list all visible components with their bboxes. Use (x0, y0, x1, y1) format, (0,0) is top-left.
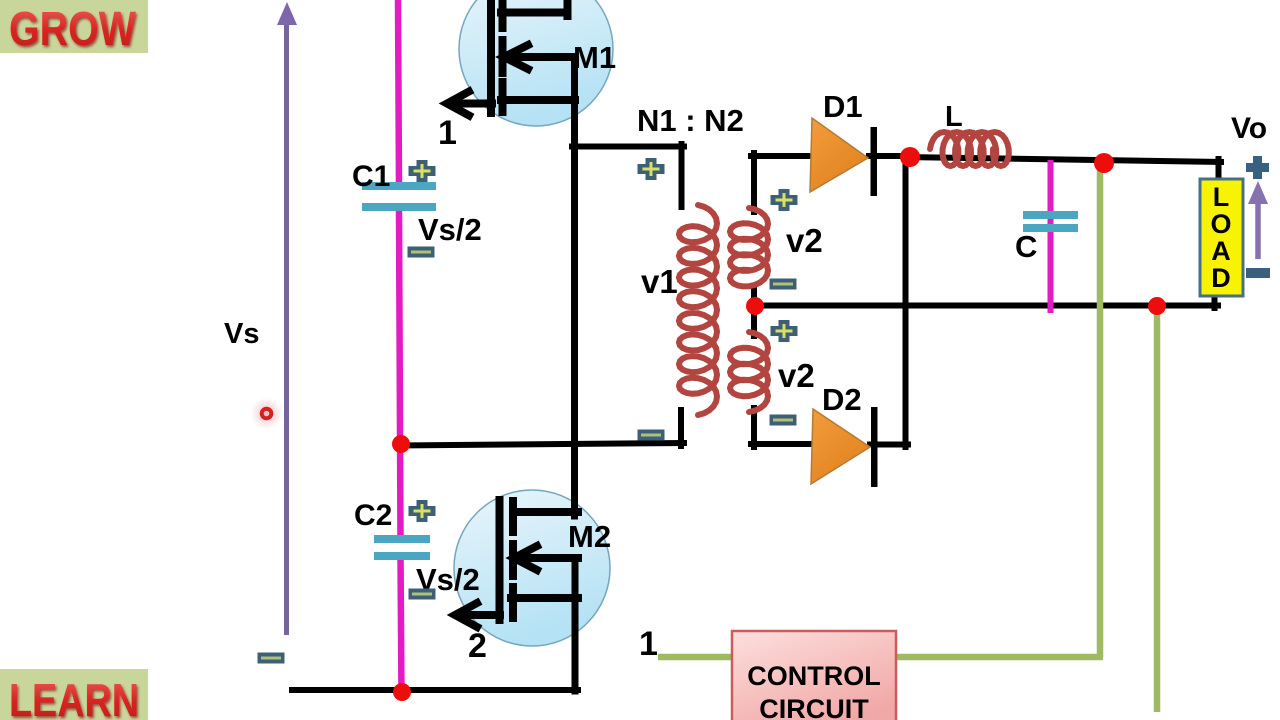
junction dot (bottom rail) (393, 683, 411, 701)
svg-text:v2: v2 (778, 357, 815, 394)
capacitor C1 plates (362, 182, 436, 190)
secondary upper minus polarity (770, 279, 797, 290)
svg-text:Vo: Vo (1231, 112, 1267, 145)
junction dot (center tap) (746, 297, 764, 315)
M2 body arrow (514, 546, 537, 570)
M2 channel segment middle (509, 544, 517, 576)
wire: secondary top lead (751, 153, 757, 212)
secondary upper plus polarity (771, 189, 798, 211)
wire: secondary top to D1 anode (751, 153, 815, 159)
transformer secondary upper winding (730, 208, 768, 286)
M1 gate lead (450, 100, 492, 108)
capacitor C lead (magenta) (1048, 160, 1054, 313)
M1 drain lead up (564, 0, 572, 16)
svg-text:C1: C1 (352, 160, 390, 193)
svg-text:D2: D2 (822, 382, 862, 417)
M2 body line (516, 554, 578, 562)
capacitor C plates (1023, 211, 1078, 219)
M2 channel segment top (509, 501, 517, 532)
Vo plus polarity (1246, 156, 1269, 179)
capacitor C2 plates (374, 535, 430, 543)
laser pointer dot (251, 398, 283, 430)
svg-text:D1: D1 (823, 89, 863, 124)
M1 body line (506, 53, 575, 61)
green feedback line vertical (output bottom) (1154, 306, 1161, 712)
M1 gate arrow (drive 1) (447, 92, 469, 116)
wire: DC bus (magenta) lower segment (401, 555, 402, 697)
diode D1 (810, 118, 868, 192)
source Vs arrow (284, 20, 289, 635)
svg-text:GROW: GROW (9, 3, 137, 56)
wire: secondary bottom lead (751, 408, 757, 447)
wire: center tap return line (752, 303, 1218, 309)
svg-text:Vs/2: Vs/2 (418, 212, 482, 247)
M2 source stub (511, 594, 578, 602)
M1 source stub (501, 96, 575, 104)
primary minus polarity (638, 430, 665, 441)
C2 minus polarity (409, 589, 436, 600)
wire: DC bus (magenta) middle segment (399, 209, 401, 539)
junction dot (top feedback) (1094, 153, 1114, 173)
wire: rectifier output vertical (903, 156, 909, 447)
svg-text:M1: M1 (573, 40, 616, 75)
green gate-drive line horizontal (658, 654, 1103, 661)
wire: primary bottom lead (678, 410, 684, 446)
M2 drain stub (513, 508, 578, 516)
M2 gate bar (496, 500, 504, 620)
Vs minus terminal (258, 653, 285, 664)
svg-text:L: L (945, 101, 963, 133)
svg-text:C: C (1015, 229, 1037, 264)
diode D2 (811, 409, 870, 484)
C1 minus polarity (408, 247, 435, 258)
junction dot (D1 output) (900, 147, 920, 167)
M1 channel segment bottom (499, 82, 507, 112)
transformer primary winding (679, 205, 717, 415)
svg-text:LEARN: LEARN (9, 674, 139, 720)
svg-text:L: L (1213, 182, 1230, 212)
secondary lower plus polarity (771, 320, 798, 342)
control circuit box (732, 631, 896, 720)
LOAD box (1200, 179, 1243, 296)
M1 body arrow (504, 45, 528, 69)
wire: load top lead (1216, 159, 1222, 182)
svg-text:2: 2 (468, 627, 487, 665)
M1 channel segment top (499, 0, 507, 28)
wire: center tap stub (751, 290, 757, 336)
wire: primary top lead (679, 144, 685, 207)
svg-text:1: 1 (438, 114, 457, 152)
svg-text:N1 : N2: N1 : N2 (637, 103, 744, 138)
wire: D2 cathode to junction (870, 442, 908, 448)
wire: secondary bottom to D2 anode (751, 441, 815, 447)
wire: midpoint to primary top (572, 144, 684, 150)
wire: capacitor midpoint line (398, 443, 684, 446)
wire: M2 source down to rail (572, 558, 579, 691)
wire: bottom rail (292, 687, 578, 693)
svg-text:v1: v1 (641, 263, 678, 300)
M1 drain stub (501, 9, 567, 17)
C1 plus polarity (409, 160, 436, 182)
green feedback line vertical (output top) (1097, 163, 1104, 657)
primary plus polarity (638, 158, 665, 180)
Vo minus polarity (1246, 268, 1270, 278)
svg-text:A: A (1211, 236, 1231, 266)
MOSFET M2 body circle (454, 490, 610, 646)
svg-text:CIRCUIT: CIRCUIT (759, 694, 869, 720)
svg-text:O: O (1210, 209, 1231, 239)
secondary lower minus polarity (770, 415, 797, 426)
junction dot (cap midpoint) (392, 435, 410, 453)
inductor L winding (930, 132, 1009, 166)
M2 gate arrow (drive 2) (455, 603, 477, 627)
wire: output top line (905, 157, 1221, 162)
wire: M1 source to M2 drain (571, 57, 578, 516)
M2 channel segment bottom (509, 587, 517, 618)
MOSFET M1 body circle (459, 0, 613, 126)
transformer secondary lower winding (730, 332, 768, 412)
svg-text:Vs: Vs (224, 318, 259, 350)
wire: load bottom lead (1212, 294, 1218, 308)
svg-text:v2: v2 (786, 222, 823, 259)
LEARN logo box (0, 669, 148, 720)
wire: DC bus (magenta) upper segment (398, 0, 399, 188)
M2 gate lead (458, 611, 500, 619)
GROW logo box (0, 0, 148, 53)
svg-text:1: 1 (639, 625, 658, 663)
Vo arrow (1255, 203, 1261, 259)
wire: D1 cathode to junction (869, 153, 911, 159)
C2 plus polarity (409, 500, 436, 522)
svg-text:M2: M2 (568, 519, 611, 554)
M1 channel segment middle (499, 40, 507, 73)
svg-text:C2: C2 (354, 499, 392, 532)
svg-text:D: D (1211, 263, 1231, 293)
svg-text:CONTROL: CONTROL (747, 661, 880, 691)
junction dot (bottom feedback) (1148, 297, 1166, 315)
M1 gate bar (487, 0, 495, 113)
